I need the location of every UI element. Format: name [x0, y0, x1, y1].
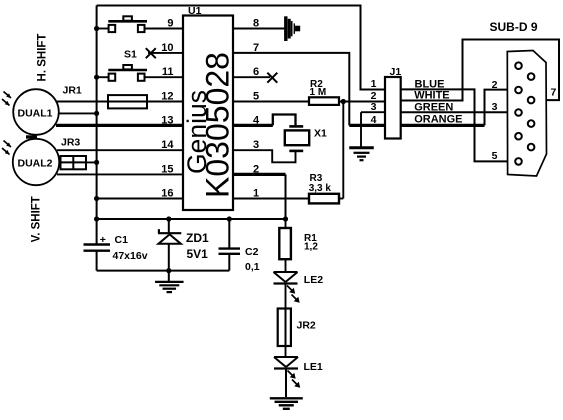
svg-text:9: 9	[167, 18, 173, 30]
svg-text:0,1: 0,1	[245, 261, 260, 273]
svg-text:12: 12	[161, 91, 173, 103]
svg-text:5V1: 5V1	[187, 247, 209, 261]
svg-text:1: 1	[371, 78, 377, 90]
svg-text:13: 13	[161, 114, 173, 126]
svg-text:3: 3	[492, 101, 498, 113]
svg-text:ZD1: ZD1	[186, 231, 209, 245]
svg-text:LE2: LE2	[304, 274, 323, 286]
svg-text:5: 5	[492, 150, 498, 162]
svg-text:15: 15	[161, 163, 173, 175]
svg-text:H. SHIFT: H. SHIFT	[37, 34, 49, 82]
svg-text:1,2: 1,2	[304, 241, 318, 252]
svg-text:DUAL1: DUAL1	[18, 108, 53, 120]
svg-text:V. SHIFT: V. SHIFT	[31, 196, 43, 242]
svg-text:3: 3	[371, 101, 377, 113]
svg-text:DUAL2: DUAL2	[18, 158, 53, 170]
svg-text:1 M: 1 M	[310, 87, 327, 98]
svg-text:GREEN: GREEN	[414, 101, 453, 113]
svg-text:C1: C1	[115, 234, 129, 246]
svg-text:SUB-D 9: SUB-D 9	[490, 20, 538, 34]
svg-text:2: 2	[492, 79, 498, 91]
svg-text:X1: X1	[314, 128, 327, 140]
svg-text:14: 14	[161, 139, 174, 151]
svg-text:WHITE: WHITE	[414, 90, 449, 102]
svg-text:10: 10	[161, 42, 173, 54]
svg-text:16: 16	[161, 188, 173, 200]
svg-text:U1: U1	[188, 5, 202, 17]
svg-text:S1: S1	[124, 49, 137, 61]
svg-text:JR1: JR1	[63, 85, 82, 97]
svg-text:11: 11	[162, 66, 174, 78]
svg-text:ORANGE: ORANGE	[414, 114, 462, 126]
svg-text:47x16v: 47x16v	[113, 250, 148, 262]
svg-text:JR2: JR2	[297, 320, 316, 332]
svg-text:JR3: JR3	[61, 137, 80, 149]
svg-text:K0305028: K0305028	[200, 52, 236, 198]
svg-text:C2: C2	[245, 246, 259, 258]
svg-text:+: +	[100, 234, 106, 246]
svg-text:3,3 k: 3,3 k	[309, 183, 332, 194]
svg-text:7: 7	[551, 86, 557, 98]
svg-text:LE1: LE1	[304, 361, 323, 373]
svg-text:J1: J1	[390, 66, 402, 78]
